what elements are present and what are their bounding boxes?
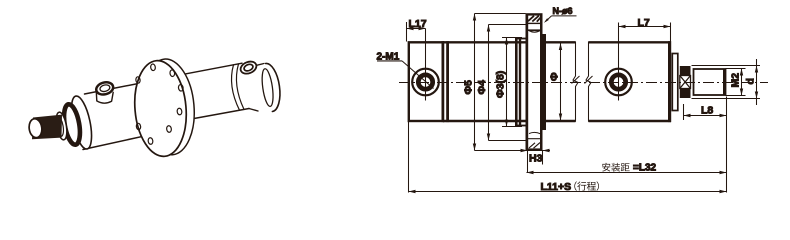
break line 2: [586, 42, 591, 122]
svg-text:=L32: =L32: [633, 163, 657, 174]
left edge extension line: [408, 122, 410, 193]
flange bottom hatch: [529, 143, 540, 149]
flange bolt hole 8: [135, 77, 140, 84]
piston rod (dark): [32, 115, 62, 140]
piston rod thread section: [694, 69, 726, 95]
phi5 dimension line: [474, 14, 476, 151]
svg-text:Φ3(8): Φ3(8): [495, 71, 507, 98]
flange right spigot band: [543, 34, 547, 130]
left port circle: [412, 69, 439, 96]
H3 dimension: [527, 151, 529, 174]
2-M1 leader: [402, 61, 434, 89]
cylinder tube body: [186, 60, 266, 119]
tube bottom edge: [443, 120, 671, 122]
rod tip face: [28, 118, 43, 139]
flange back face: [139, 57, 198, 157]
rear port boss: [239, 59, 258, 76]
svg-text:Φ: Φ: [549, 72, 561, 81]
svg-text:L7: L7: [638, 17, 650, 29]
tube end seam bands: [515, 38, 518, 126]
phi3(8) dimension line: [506, 38, 508, 127]
rod end extension line: [726, 97, 728, 193]
flange front face: [131, 58, 190, 158]
gland nut top block: [680, 66, 691, 76]
gland collar: [672, 54, 678, 111]
flange bolt hole 3: [178, 84, 183, 91]
svg-text:L8: L8: [701, 105, 713, 117]
phi4 dimension line: [488, 25, 490, 141]
d dimension: [692, 65, 761, 67]
port boss on head: [96, 92, 113, 103]
break line 1: [573, 42, 578, 122]
rear end inner rim: [260, 68, 275, 107]
rear cap groove ring: [232, 65, 240, 110]
svg-text:H3: H3: [529, 153, 543, 165]
flange bottom edge: [526, 148, 543, 150]
front head cylinder: [84, 82, 150, 152]
svg-text:d: d: [745, 78, 757, 84]
head/tube seam band: [442, 41, 445, 122]
flange bolt hole 6: [148, 137, 153, 144]
centerline axis: [399, 82, 768, 84]
flange bolt hole 7: [136, 123, 141, 130]
right port circle: [605, 69, 632, 96]
label anzhuangju: [602, 163, 610, 172]
M2 dimension: [726, 68, 746, 70]
flange left face: [526, 14, 529, 151]
gland dark ring: [61, 103, 82, 146]
svg-text:M2: M2: [730, 73, 742, 88]
svg-text:N-ø6: N-ø6: [553, 6, 573, 16]
L8 dimension: [683, 104, 685, 120]
flange bolt hole 5: [166, 125, 171, 132]
right port centerline: [618, 23, 620, 101]
flange top hatch: [528, 16, 542, 22]
flange bolt hole 4: [177, 108, 182, 115]
gland nut x-box: [680, 76, 691, 89]
tube OD phi dimension: [560, 43, 562, 121]
N-phi6 leader: [546, 16, 552, 22]
left port centerline: [425, 29, 427, 101]
right head right edge: [668, 41, 671, 122]
tube top edge: [443, 41, 671, 43]
label xingcheng parens: [574, 181, 577, 190]
left head block outline: [409, 42, 443, 121]
tube spigot step lines: [515, 38, 527, 40]
head front face: [68, 94, 96, 150]
flange top edge: [526, 13, 543, 15]
flange bolt hole 1: [150, 64, 155, 71]
gland nut bottom block: [680, 89, 691, 99]
flange right face: [540, 14, 543, 151]
rear end face: [255, 62, 283, 113]
rod washer: [54, 111, 68, 140]
flange bolt hole 2: [170, 70, 175, 77]
